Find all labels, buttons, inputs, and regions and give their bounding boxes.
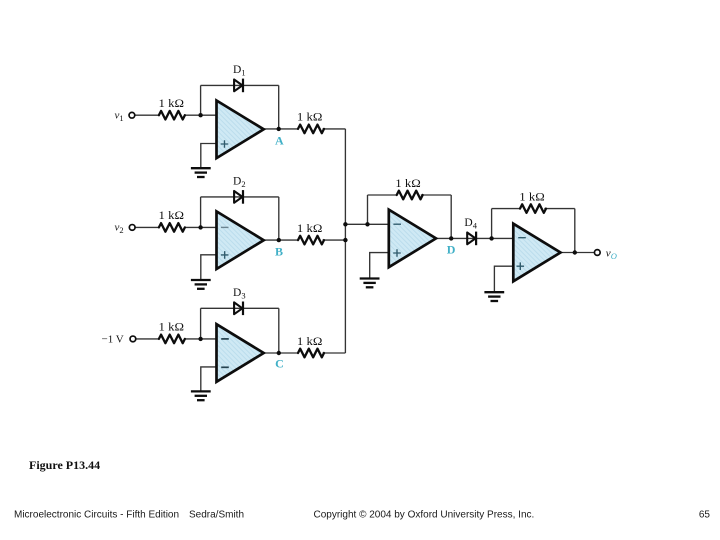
svg-text:D1: D1 (233, 64, 246, 78)
wire stage1 resistor to bus (323, 128, 346, 130)
svg-text:D3: D3 (233, 287, 246, 301)
svg-text:1 kΩ: 1 kΩ (159, 210, 185, 222)
wire stage2 node to op-amp (185, 226, 217, 228)
node D dot (449, 236, 453, 240)
op-amp U5 minus sign (518, 237, 526, 239)
svg-text:1 kΩ: 1 kΩ (395, 178, 421, 190)
svg-text:Copyright © 2004 by Oxford Uni: Copyright © 2004 by Oxford University Pr… (314, 510, 535, 521)
wire stage1 node to op-amp (185, 114, 217, 116)
wire U4 feedback top left (368, 194, 397, 196)
op-amp U2 plus sign (221, 251, 229, 259)
resistor R1 input stage1 (159, 111, 185, 120)
wire stage1 input (135, 114, 159, 116)
resistor R4 from node A (298, 125, 324, 134)
op-amp U2 (217, 211, 264, 269)
node dot stage3 input (198, 337, 202, 341)
ground stage2 (191, 280, 211, 289)
terminal v2 (129, 225, 135, 231)
svg-text:1 kΩ: 1 kΩ (159, 98, 185, 110)
wire stage3 input (136, 338, 159, 340)
terminal -1V (130, 336, 136, 342)
svg-text:1 kΩ: 1 kΩ (297, 112, 323, 124)
diode D1 (234, 79, 243, 93)
svg-text:v1: v1 (115, 109, 124, 123)
op-amp U5 plus sign (517, 262, 525, 270)
node dot bus upper (343, 222, 347, 226)
ground stage3 (191, 391, 211, 400)
wire stage3 plus input (201, 367, 217, 391)
op-amp U3 lower minus sign (221, 366, 229, 368)
wire U5 feedback top right (544, 208, 575, 210)
svg-text:1 kΩ: 1 kΩ (297, 336, 323, 348)
svg-text:1 kΩ: 1 kΩ (519, 191, 545, 203)
resistor R3 input stage3 (159, 335, 185, 344)
node dot U5 output (573, 250, 577, 254)
wire stage1 feedback left vertical (200, 85, 202, 115)
resistor R7 feedback U4 (397, 191, 423, 200)
ground U5 (484, 292, 504, 301)
wire summing bus vertical (344, 129, 346, 353)
svg-text:1 kΩ: 1 kΩ (297, 223, 323, 235)
op-amp U4 (389, 210, 436, 268)
node B dot (277, 238, 281, 242)
svg-text:A: A (275, 133, 284, 147)
wire stage2 output (264, 239, 299, 241)
op-amp U3 minus sign (221, 338, 229, 340)
terminal v1 (129, 112, 135, 118)
node dot stage2 input (198, 225, 202, 229)
wire stage3 node to op-amp (185, 338, 217, 340)
wire U4 plus input (370, 253, 389, 279)
svg-text:Microelectronic Circuits - Fif: Microelectronic Circuits - Fifth Edition (14, 510, 179, 521)
wire stage3 resistor to bus (323, 352, 346, 354)
wire stage2 input (135, 226, 159, 228)
op-amp U2 minus sign (221, 226, 229, 228)
svg-text:C: C (275, 356, 284, 370)
wire stage2 feedback right vertical (278, 197, 280, 240)
ground U4 (360, 279, 380, 288)
resistor R6 from node C (298, 349, 324, 358)
diode D4 (467, 232, 476, 246)
wire stage3 output (264, 352, 299, 354)
op-amp U1 plus sign (221, 140, 229, 148)
wire stage2 plus input (201, 255, 217, 280)
node dot stage1 input (198, 113, 202, 117)
diode D2 (234, 190, 243, 204)
svg-text:Figure P13.44: Figure P13.44 (29, 458, 100, 472)
node dot bus lower (343, 238, 347, 242)
wire stage1 feedback top (201, 84, 279, 86)
node dot U5 input (489, 236, 493, 240)
svg-text:D4: D4 (464, 217, 477, 231)
op-amp U4 plus sign (393, 249, 401, 257)
svg-text:1 kΩ: 1 kΩ (159, 322, 185, 334)
svg-text:vO: vO (606, 247, 617, 261)
wire U5 plus input (494, 266, 513, 292)
wire U4 feedback top right (421, 194, 451, 196)
wire U5 feedback left vertical (491, 209, 493, 239)
node dot U4 feedback tap (365, 222, 369, 226)
svg-text:D: D (447, 243, 456, 257)
resistor R5 from node B (298, 236, 324, 245)
wire bus to op-amp U4 (345, 223, 388, 225)
wire U5 feedback right vertical (574, 209, 576, 253)
wire U5 feedback top left (492, 208, 520, 210)
wire stage3 feedback right vertical (278, 308, 280, 353)
wire U4 feedback right vertical (450, 195, 452, 238)
wire U4 feedback left vertical (367, 195, 369, 224)
op-amp U3 (217, 324, 264, 382)
op-amp U4 minus sign (393, 223, 401, 225)
wire stage1 output (264, 128, 299, 130)
node A dot (277, 127, 281, 131)
resistor R2 input stage2 (159, 223, 185, 232)
resistor R8 feedback U5 (520, 204, 546, 213)
wire U4 output through D4 to U5 (436, 237, 513, 239)
wire stage2 feedback left vertical (200, 197, 202, 228)
svg-text:v2: v2 (115, 222, 124, 236)
diode D3 (234, 302, 243, 316)
svg-text:B: B (275, 245, 283, 259)
wire U5 output (561, 252, 595, 254)
ground stage1 (191, 168, 211, 177)
svg-text:Sedra/Smith: Sedra/Smith (189, 510, 244, 521)
op-amp U1 (217, 101, 264, 159)
wire stage2 feedback top (201, 196, 279, 198)
wire stage1 feedback right vertical (278, 85, 280, 128)
svg-text:−1 V: −1 V (102, 334, 124, 346)
terminal vO (594, 250, 600, 256)
wire stage1 plus input (201, 144, 217, 169)
svg-text:65: 65 (699, 510, 711, 521)
svg-text:D2: D2 (233, 176, 246, 190)
node C dot (277, 351, 281, 355)
wire stage3 feedback left vertical (200, 308, 202, 339)
wire stage2 resistor to bus (323, 239, 346, 241)
op-amp U5 (513, 224, 560, 282)
wire stage3 feedback top (201, 307, 279, 309)
